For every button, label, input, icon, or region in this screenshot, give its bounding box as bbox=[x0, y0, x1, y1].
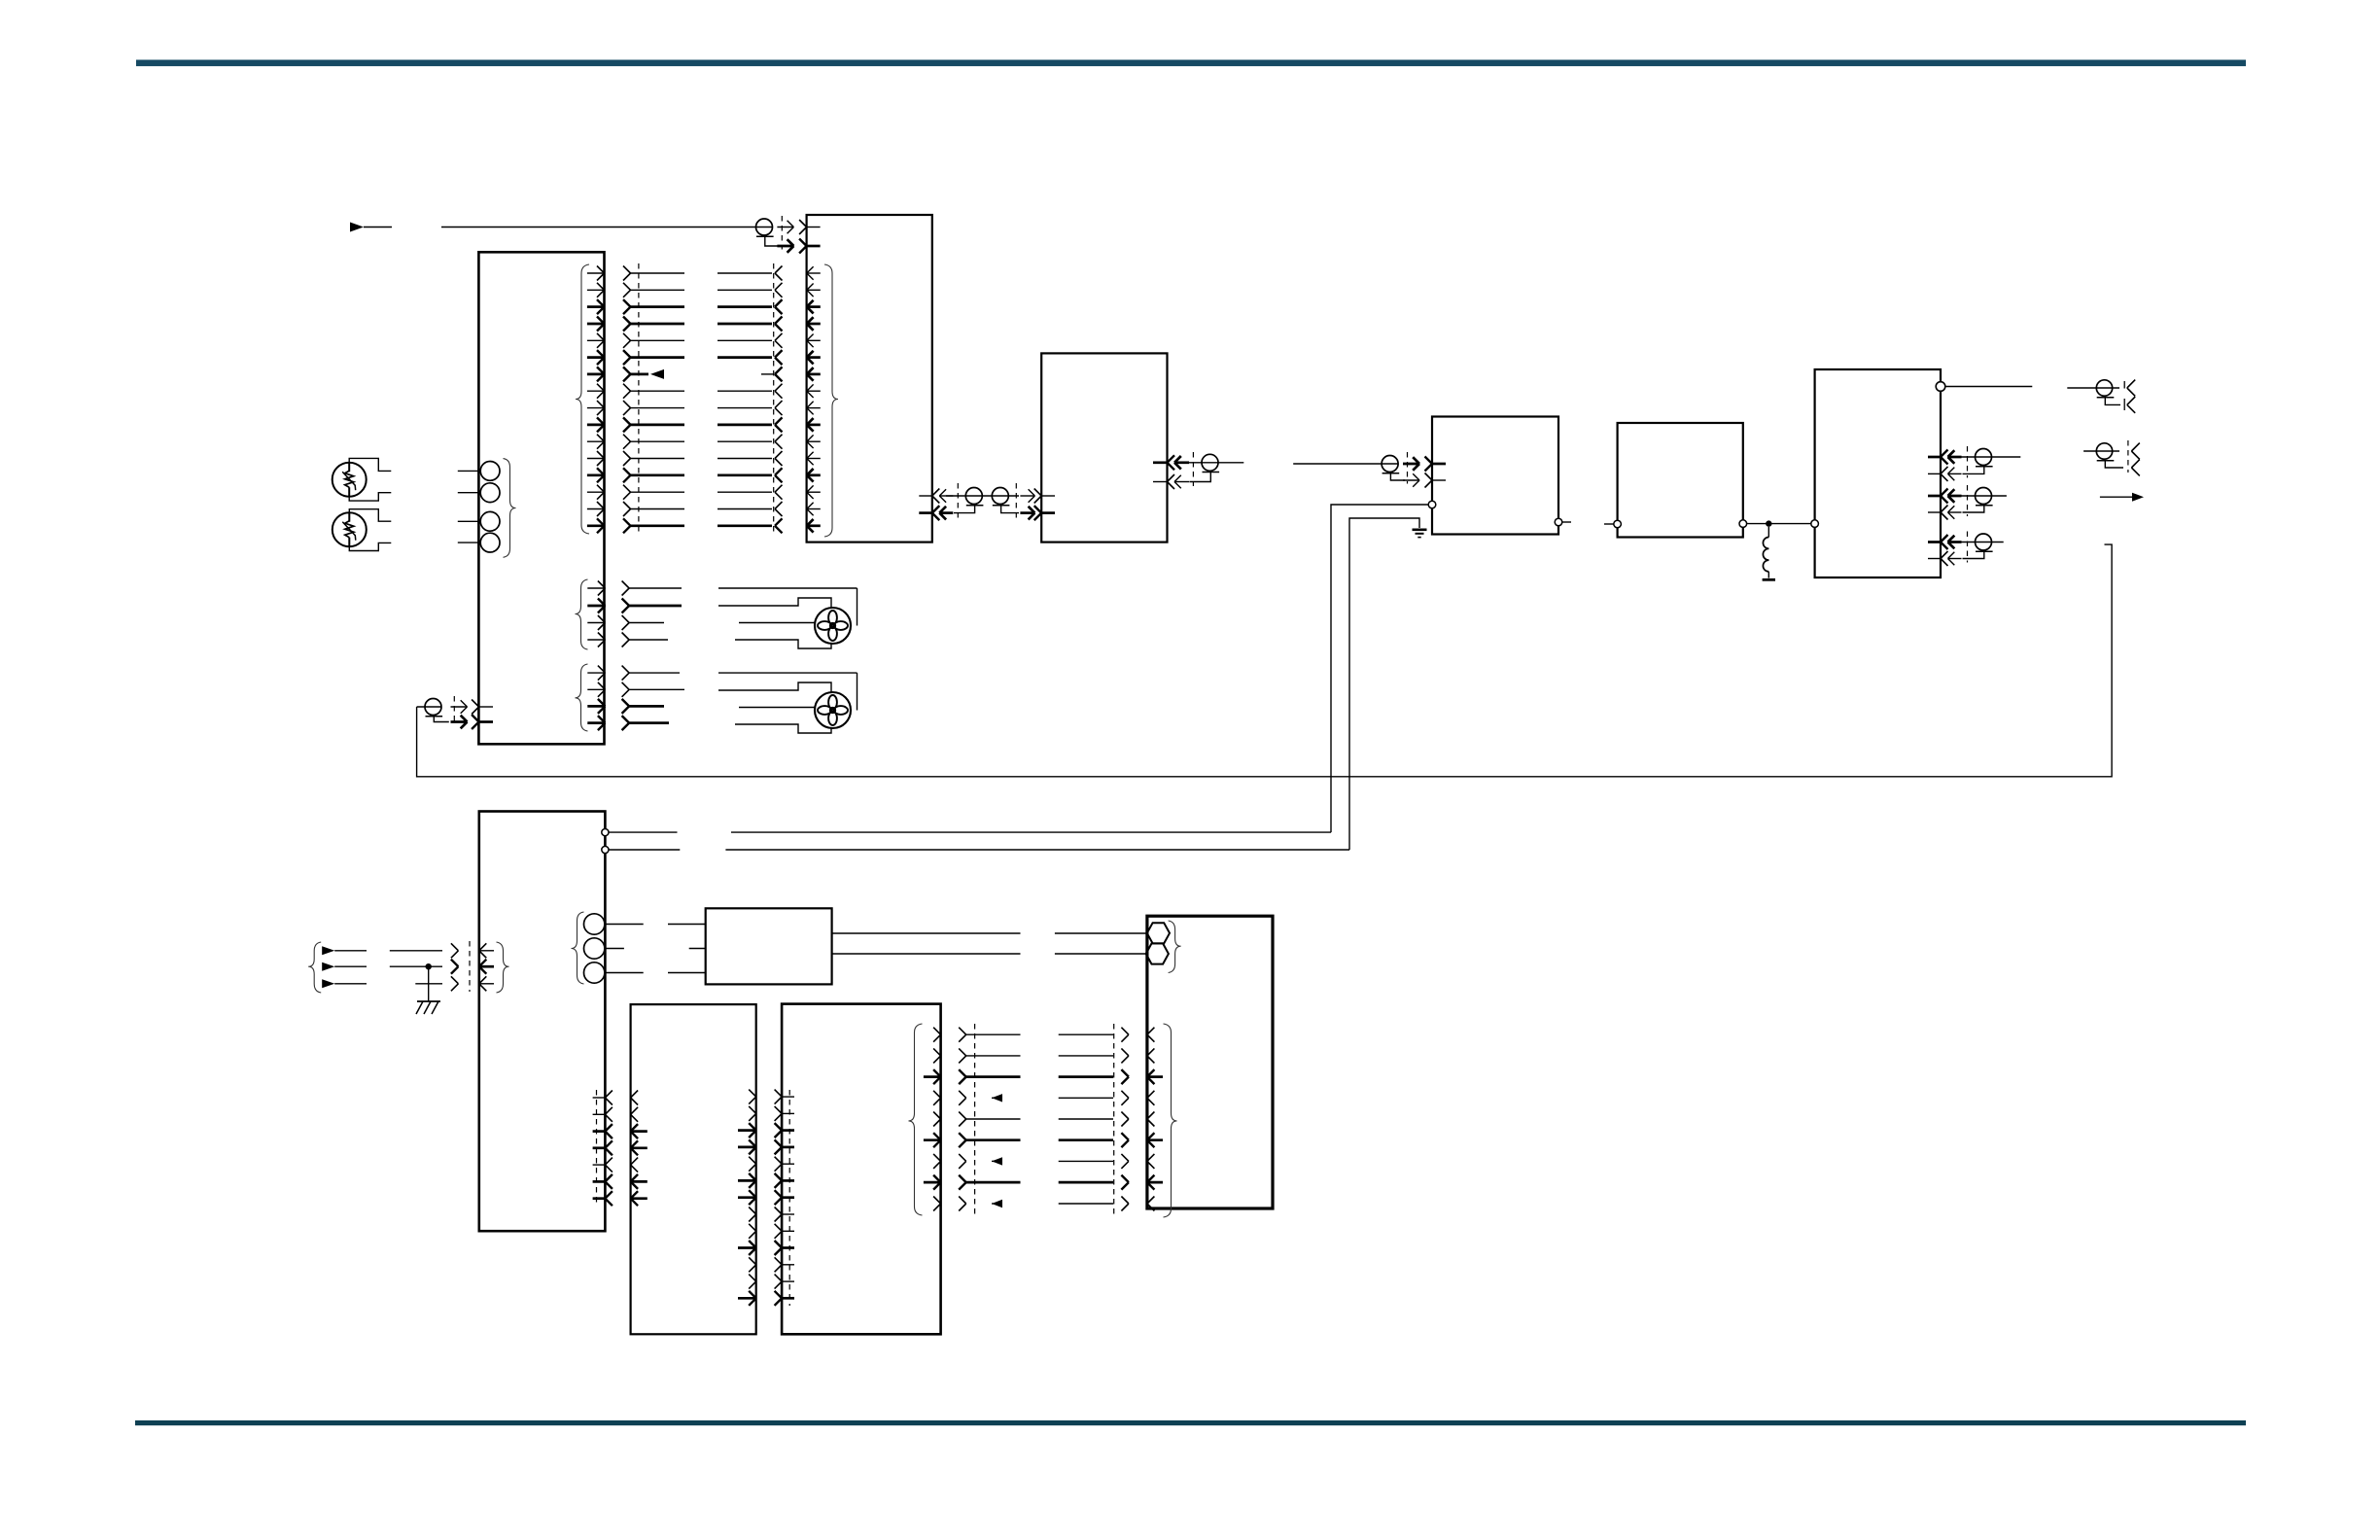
connector J6 AV into U7 bbox=[451, 941, 509, 993]
wire fan2 harness bbox=[718, 673, 857, 733]
top header bar bbox=[136, 60, 2246, 67]
bus harness U7 to U9 bbox=[593, 1090, 647, 1206]
node pin U4 left bbox=[1428, 501, 1436, 508]
thermistor RT1 bbox=[332, 463, 367, 497]
connector group J2 fan1 bbox=[576, 579, 682, 649]
pin U5 left bbox=[1604, 520, 1621, 528]
connector plug P7 U6 right 3 bbox=[1928, 532, 2004, 567]
bracket wiring RT2 bbox=[349, 509, 391, 551]
block U2 signal processor bbox=[807, 215, 932, 542]
block U11 digital board bbox=[1147, 916, 1273, 1208]
block U5 bbox=[1618, 423, 1743, 538]
input arrows AV group bbox=[308, 942, 367, 993]
bus harness block U1 to block U2 bbox=[576, 263, 838, 537]
ground GND2 bbox=[1413, 530, 1427, 538]
wire U7 to U4 riser bbox=[609, 831, 1331, 833]
block U10 bbox=[782, 1004, 941, 1335]
thermistor RT2 bbox=[332, 512, 367, 546]
bus harness U10 to U11 bbox=[909, 1024, 1177, 1217]
connector plug P5 U6 right 1 bbox=[1928, 446, 2020, 481]
transformer T1 windings bbox=[458, 459, 516, 558]
wire U7 to GND riser bbox=[609, 849, 1349, 851]
wire U5 to U6 with junction bbox=[1747, 520, 1811, 526]
bracket wiring RT1 bbox=[349, 458, 391, 501]
connector plug P6 U6 right 2 bbox=[1928, 485, 2007, 520]
connector group J3 fan2 bbox=[576, 664, 685, 731]
pin U4 right bbox=[1555, 518, 1571, 526]
fan motor M1 bbox=[815, 608, 851, 644]
block U6 output stage bbox=[1815, 369, 1941, 577]
wires U8 to J7 bbox=[832, 933, 1147, 954]
bus harness U9 to U10 bbox=[738, 1090, 794, 1306]
chassis ground GND3 bbox=[416, 1001, 440, 1014]
wire fan1 harness bbox=[718, 588, 857, 648]
fan motor M2 bbox=[815, 692, 851, 728]
crystal X2 bbox=[1146, 943, 1169, 963]
off-page input arrow bbox=[350, 223, 392, 232]
wire riser to U4 node bbox=[1331, 505, 1428, 832]
connector socket J5 bbox=[2083, 440, 2140, 475]
wire riser to chassis ground bbox=[1349, 518, 1419, 850]
connector plug P1 to block U2 bbox=[756, 216, 821, 254]
block U7 main lower board bbox=[479, 812, 606, 1232]
off-page output arrow bbox=[2100, 493, 2144, 502]
block U9 bbox=[631, 1004, 756, 1334]
wires T2 to U8 bbox=[668, 925, 706, 973]
pin U6 top right bbox=[1936, 382, 2032, 392]
pins U7 right top bbox=[602, 829, 609, 854]
ground GND1 bbox=[1763, 578, 1775, 581]
block U8 converter bbox=[706, 908, 832, 984]
block U4 bbox=[1432, 417, 1558, 535]
crystal X1 bbox=[1147, 923, 1170, 943]
connector bridge U2 to U3 bbox=[919, 483, 1055, 520]
pin U5 right bbox=[1739, 520, 1747, 528]
wires AV inputs bbox=[390, 951, 442, 1001]
block U1 main board bbox=[478, 252, 604, 744]
brace crystals bbox=[1169, 921, 1181, 973]
connector plug P2 block U1 lower-left bbox=[417, 696, 493, 729]
wire main video input bbox=[441, 227, 756, 228]
transformer T2 windings bbox=[572, 912, 644, 984]
connector plug P3 U3 right edge bbox=[1153, 452, 1243, 489]
bottom footer bar bbox=[135, 1420, 2246, 1425]
wire U3 to U4 bbox=[0, 0, 1, 1]
pin U6 left bbox=[1811, 520, 1819, 528]
connector socket J4 antenna bbox=[2067, 380, 2135, 413]
wire long return loop bbox=[417, 544, 2113, 777]
connector plug P4 to block U4 bbox=[1293, 452, 1446, 488]
block U3 tuner module bbox=[1041, 353, 1167, 542]
inductor L1 bbox=[1763, 527, 1768, 578]
